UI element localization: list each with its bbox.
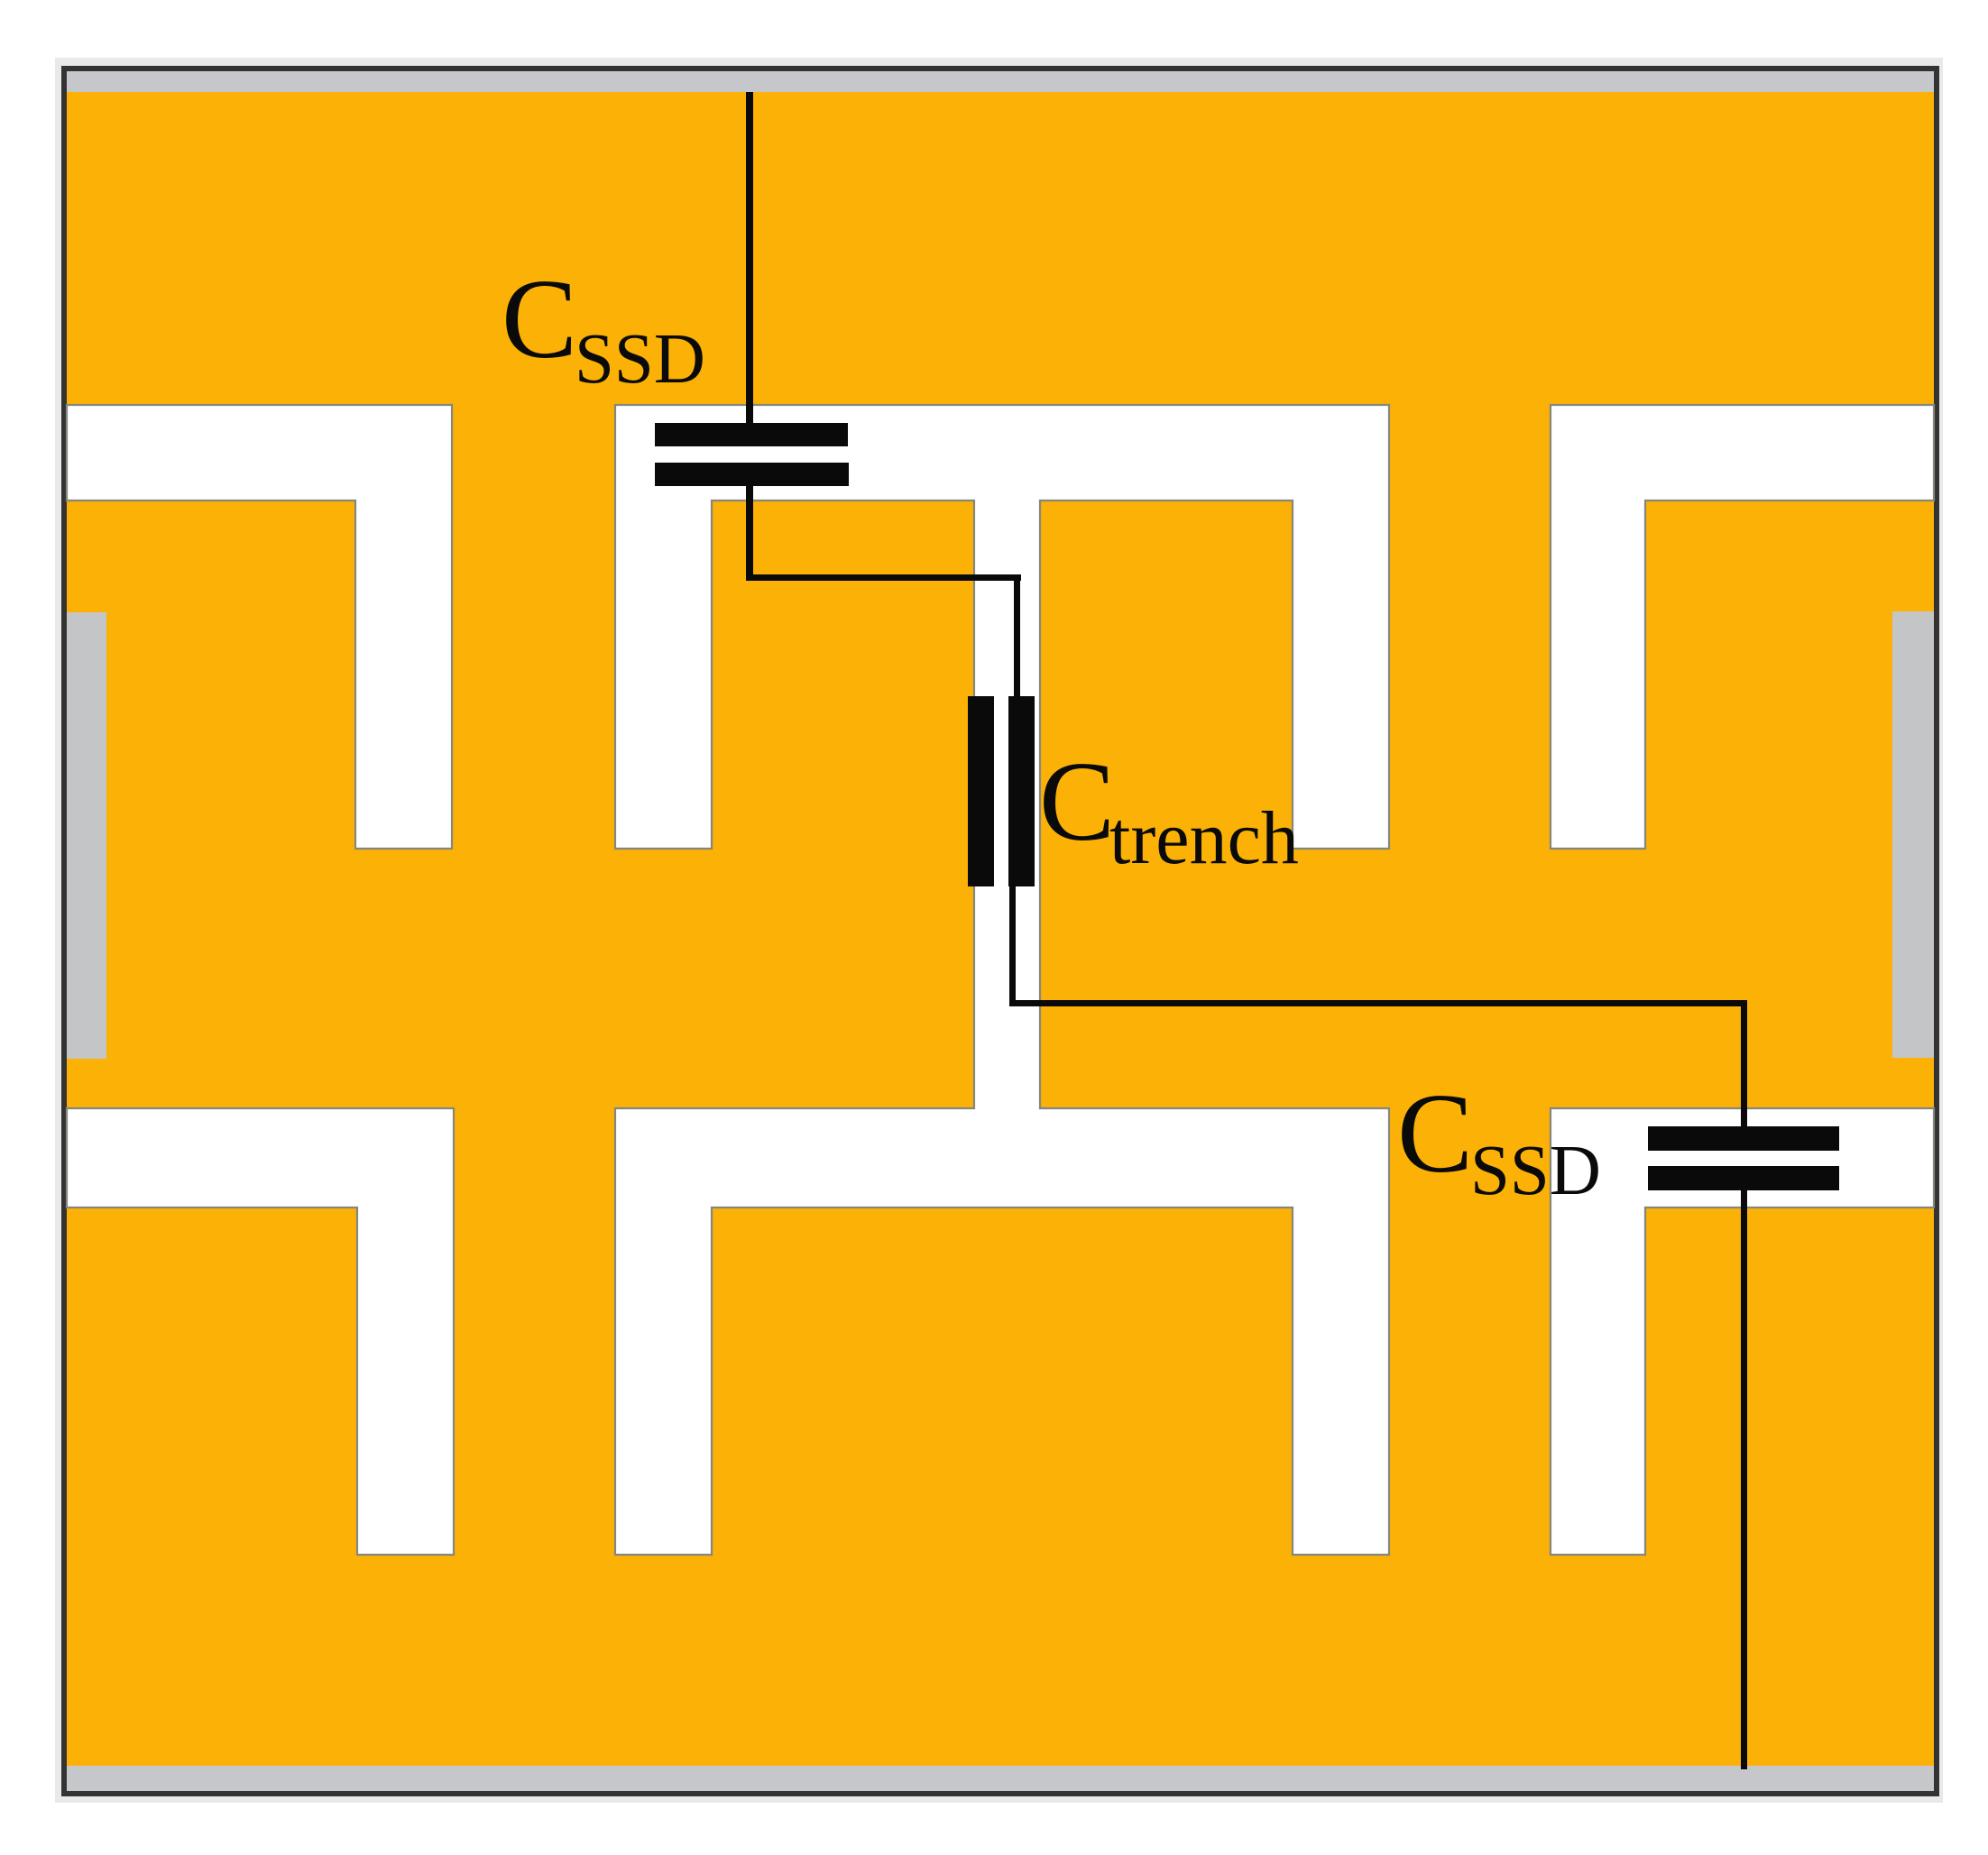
svg-text:SSD: SSD — [575, 320, 705, 399]
svg-text:trench: trench — [1109, 796, 1299, 880]
svg-text:C: C — [502, 257, 577, 382]
svg-text:C: C — [1039, 739, 1115, 865]
svg-text:C: C — [1397, 1071, 1473, 1197]
svg-text:SSD: SSD — [1470, 1132, 1601, 1210]
